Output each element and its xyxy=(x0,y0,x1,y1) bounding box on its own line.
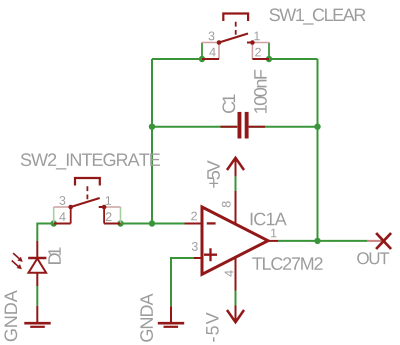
label -5V xyxy=(206,312,219,341)
ground GNDA middle xyxy=(158,306,184,327)
wire top rail left segment xyxy=(152,58,202,60)
label IC1A xyxy=(251,213,287,226)
junction output xyxy=(314,238,320,244)
wire input rail xyxy=(121,223,185,225)
switch SW2 xyxy=(54,178,121,224)
label 100nF xyxy=(254,70,267,113)
label C1 xyxy=(222,95,235,114)
junction input rail xyxy=(149,220,155,226)
label TLC27M2 xyxy=(252,257,322,270)
pin number SW2-2 xyxy=(106,212,112,221)
pin number SW2-1 xyxy=(106,196,111,205)
label D1 xyxy=(48,248,60,265)
wire D1 to ground xyxy=(36,286,38,306)
supply +5V xyxy=(227,158,244,177)
wire C1 rail left xyxy=(152,126,237,128)
op-amp IC1A xyxy=(185,191,279,291)
wire output xyxy=(278,240,367,242)
wire left vertical xyxy=(151,59,153,224)
capacitor C1 xyxy=(221,112,266,139)
wire minus5 net xyxy=(235,291,237,306)
wire right vertical xyxy=(317,59,319,241)
label GNDA left xyxy=(4,290,17,341)
wire SW2 to D1 xyxy=(37,224,53,242)
airwire to OUT xyxy=(367,240,384,242)
pin number SW2-3 xyxy=(59,196,65,205)
label +5V xyxy=(207,160,220,187)
pin number U1-8 xyxy=(222,201,231,207)
junction SW1 pin2 xyxy=(266,56,272,62)
junction C1 left xyxy=(149,124,155,130)
switch SW1 xyxy=(202,14,269,60)
pin number SW1-4 xyxy=(209,48,215,57)
junction SW1 pin4 xyxy=(199,56,205,62)
pin number U1-3 xyxy=(192,242,198,251)
junction SW2 pin4 xyxy=(51,220,57,226)
pin number SW1-1 xyxy=(254,32,259,41)
pin number U1-2 xyxy=(191,212,197,221)
supply -5V xyxy=(227,306,244,323)
junction C1 right xyxy=(314,124,320,130)
wire plus5 net xyxy=(235,176,237,191)
label SW1_CLEAR xyxy=(270,8,366,24)
terminator X OUT xyxy=(376,233,391,249)
pin number U1-1 xyxy=(271,229,276,238)
wire top rail right segment xyxy=(269,58,318,60)
pin number U1-4 xyxy=(225,270,234,276)
junction SW2 pin2 xyxy=(117,220,123,226)
LED D1 xyxy=(12,241,47,286)
wire C1 rail right xyxy=(249,126,318,128)
pin number SW1-2 xyxy=(255,48,261,57)
label SW2_INTEGRATE xyxy=(21,153,160,169)
ground GNDA left xyxy=(24,306,50,327)
pin number SW1-3 xyxy=(209,32,215,41)
label GNDA middle xyxy=(140,294,153,342)
wire pin3 to ground xyxy=(171,258,194,306)
pin number SW2-4 xyxy=(59,212,65,221)
label OUT xyxy=(357,252,389,264)
